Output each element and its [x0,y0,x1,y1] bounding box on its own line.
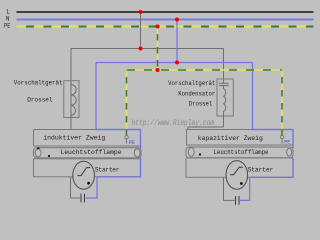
junction L bus [139,10,143,14]
wire N right starter side [250,158,293,177]
wire left choke feed [70,49,72,130]
node L bus [17,11,314,13]
capacitor C2 plates [80,194,82,203]
svg-text:PE: PE [129,140,135,146]
wire right ballast out jog [188,127,224,130]
starter box left [34,159,141,177]
switch symbol S1 [77,168,90,176]
wire N right lamp side [292,130,294,148]
wire N over right lamp edge [292,130,294,149]
lamp left tube [34,147,142,158]
capacitor C2 loop left: gray side [71,177,81,198]
inductor L2 coil [224,86,226,128]
terminal PE right [280,135,290,145]
node N bus [17,19,314,21]
svg-text:http://www.Rieplay.com: http://www.Rieplay.com [132,118,215,128]
lamp right tube [186,147,293,158]
inductor L1 coil [71,85,76,116]
wire PE left lamp drop [126,70,128,136]
wire N right branch down [253,63,294,130]
wire PE drop [157,27,159,71]
svg-text:Starter: Starter [248,166,274,173]
junction L corner [139,47,143,51]
contact dot S1 [87,182,90,185]
wire L drop [140,12,142,49]
capacitor C1 plates [219,82,229,84]
wire N over left box top [96,129,141,131]
wire N over left starter bottom [97,176,141,178]
wire N horizontal distribution [96,62,253,64]
wire N over right box top [253,129,294,131]
box induktiver Zweig [34,130,141,147]
wire N over left starter edge [140,157,142,177]
wire N over right starter edge [292,158,294,178]
starter S1 circle [73,161,95,189]
terminal PE left [125,136,135,146]
svg-text:Drossel: Drossel [189,100,213,107]
wire PE right lamp drop [281,70,283,136]
contact dot S2 [240,182,243,185]
wire N over right starter bottom [250,176,293,178]
wire L horizontal distribution [71,48,224,50]
capacitor C3 loop: blue side [240,177,250,200]
wire N left lamp side [140,130,142,149]
wire N over left lamp edge [140,130,142,149]
starter box right [186,158,293,177]
wire PE horizontal [127,69,283,71]
svg-text:Kondensator: Kondensator [178,90,215,97]
junction N corner [175,61,179,65]
svg-text:Vorschaltgerät: Vorschaltgerät [14,79,63,86]
capacitor C3 plates [235,196,237,205]
svg-text:Starter: Starter [95,166,120,173]
switch symbol S2 [230,167,243,175]
wire N drop [176,20,178,63]
capacitor C3 loop right: gray side [224,177,235,200]
choke box left (Vorschaltgeraet Drossel) [64,81,79,118]
starter S2 circle [226,161,248,190]
svg-text:induktiver Zweig: induktiver Zweig [43,135,105,142]
ballast box right (Kondensator + Drossel) [217,79,233,116]
junction PE corner [156,68,160,72]
svg-text:Drossel: Drossel [27,96,52,103]
box kapazitiver Zweig [187,130,294,146]
svg-text:PE: PE [4,23,11,30]
svg-text:kapazitiver Zweig: kapazitiver Zweig [198,135,263,142]
wire right ballast feed [223,49,225,84]
wire N left branch down [96,63,141,130]
junction PE bus [156,25,160,29]
capacitor C2 loop: blue side [86,177,98,198]
wire N left starter side [97,158,141,177]
junction N bus [175,18,179,22]
node PE bus [17,26,314,28]
svg-text:N: N [6,16,10,23]
svg-text:Leuchtstofflampe: Leuchtstofflampe [214,149,269,156]
svg-text:Vorschaltgerät: Vorschaltgerät [168,80,215,87]
svg-text:Leuchtstofflampe: Leuchtstofflampe [60,149,121,156]
